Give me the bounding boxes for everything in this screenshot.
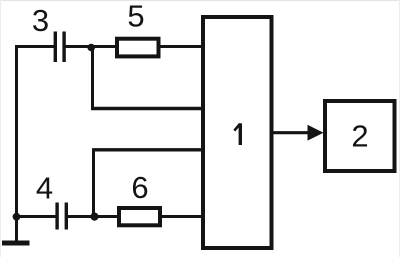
svg-text:6: 6: [131, 170, 148, 205]
svg-text:5: 5: [127, 0, 144, 34]
svg-text:2: 2: [351, 119, 368, 154]
svg-text:4: 4: [36, 171, 53, 206]
svg-text:3: 3: [32, 3, 49, 38]
